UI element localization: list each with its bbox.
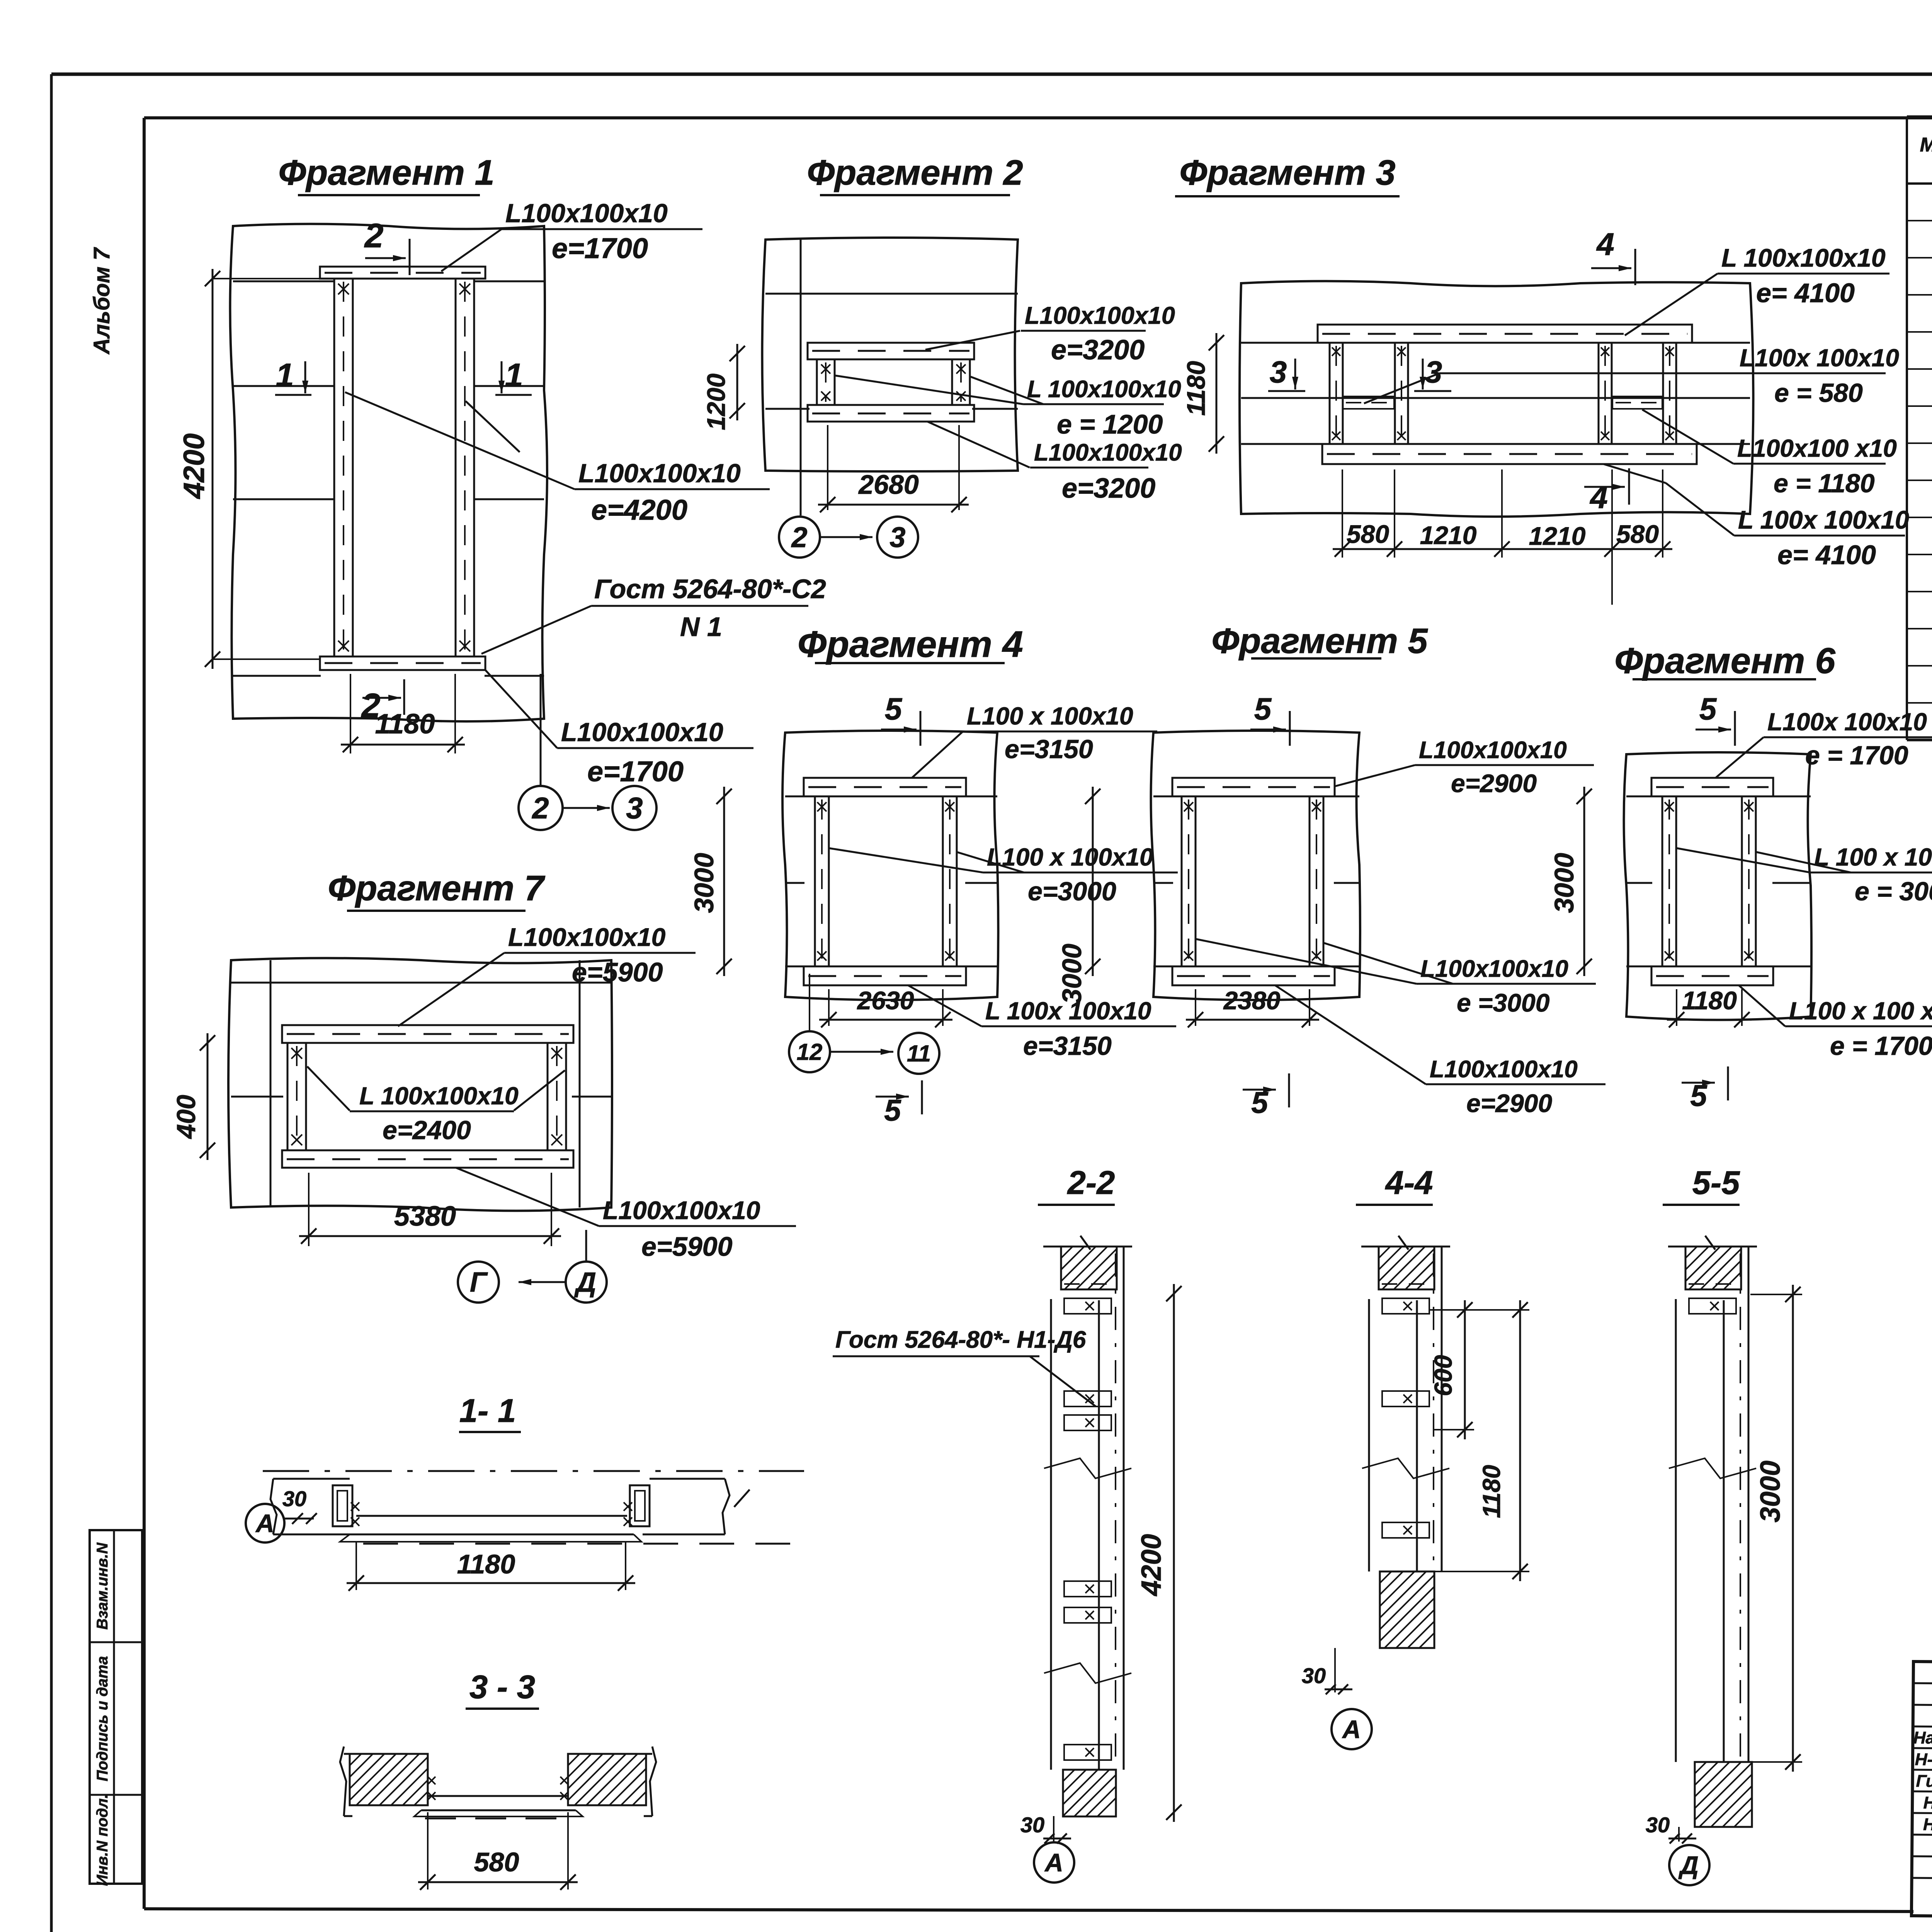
svg-text:L100х100 х10: L100х100 х10 (1737, 434, 1897, 462)
svg-text:e=3150: e=3150 (1023, 1031, 1112, 1061)
svg-text:L100x 100x10: L100x 100x10 (1740, 344, 1899, 372)
svg-text:1210: 1210 (1529, 522, 1586, 550)
svg-text:Фрагмент 2: Фрагмент 2 (807, 153, 1023, 192)
svg-text:2: 2 (361, 686, 381, 724)
svg-text:L 100x100x10: L 100x100x10 (1027, 376, 1181, 403)
svg-text:L100x100x10: L100x100x10 (578, 459, 741, 488)
svg-text:5380: 5380 (394, 1201, 456, 1232)
svg-text:1180: 1180 (457, 1549, 515, 1579)
svg-text:4200: 4200 (1136, 1534, 1167, 1597)
svg-text:1200: 1200 (702, 373, 730, 430)
svg-text:Альбом 7: Альбом 7 (89, 247, 114, 355)
svg-text:e=3200: e=3200 (1062, 473, 1155, 504)
svg-text:Г: Г (470, 1267, 488, 1298)
svg-text:Фрагмент 1: Фрагмент 1 (278, 153, 494, 192)
svg-text:Взам.инв.N: Взам.инв.N (94, 1542, 111, 1629)
svg-text:2680: 2680 (858, 469, 919, 500)
svg-text:e= 4100: e= 4100 (1756, 278, 1855, 308)
svg-text:L 100x100x10: L 100x100x10 (1721, 243, 1886, 272)
svg-text:Фрагмент 5: Фрагмент 5 (1211, 621, 1428, 661)
svg-text:L100x100x10: L100x100x10 (561, 718, 723, 747)
svg-text:А: А (1044, 1848, 1063, 1877)
svg-text:L 100x100x10: L 100x100x10 (359, 1082, 519, 1110)
svg-text:e=2900: e=2900 (1466, 1089, 1552, 1117)
svg-text:e=2400: e=2400 (383, 1116, 471, 1145)
svg-text:Д: Д (1678, 1851, 1699, 1879)
svg-text:2-2: 2-2 (1067, 1165, 1115, 1201)
svg-text:Гип стр.: Гип стр. (1916, 1772, 1932, 1791)
svg-text:e=5900: e=5900 (641, 1231, 733, 1262)
svg-text:e = 1200: e = 1200 (1057, 409, 1163, 439)
svg-text:Инв.N подл.: Инв.N подл. (94, 1794, 111, 1886)
svg-text:4200: 4200 (178, 433, 211, 499)
svg-text:3: 3 (1425, 355, 1442, 389)
svg-text:e = 580: e = 580 (1774, 378, 1863, 408)
svg-text:30: 30 (282, 1486, 306, 1511)
svg-text:L100x100x10: L100x100x10 (1430, 1056, 1578, 1083)
svg-text:30: 30 (1302, 1663, 1326, 1688)
svg-text:e=2900: e=2900 (1451, 769, 1537, 798)
svg-text:L100 x 100x10: L100 x 100x10 (987, 843, 1153, 871)
svg-text:3: 3 (1270, 355, 1287, 389)
svg-text:Д: Д (574, 1267, 596, 1298)
svg-text:e=3150: e=3150 (1005, 735, 1093, 764)
svg-text:L100x100x10: L100x100x10 (1025, 302, 1175, 329)
svg-text:e= 4100: e= 4100 (1777, 540, 1876, 570)
svg-text:Нач.гр.: Нач.гр. (1923, 1793, 1932, 1813)
svg-text:1180: 1180 (1478, 1465, 1505, 1518)
svg-text:2380: 2380 (1223, 986, 1281, 1015)
svg-text:L100x100x10: L100x100x10 (1034, 439, 1182, 466)
svg-text:L100 x 100 x 10: L100 x 100 x 10 (1789, 997, 1932, 1025)
svg-text:3000: 3000 (1057, 944, 1087, 1004)
svg-text:30: 30 (1646, 1813, 1670, 1837)
svg-text:4: 4 (1596, 227, 1614, 262)
svg-text:Фрагмент 7: Фрагмент 7 (328, 869, 545, 908)
svg-text:30: 30 (1020, 1813, 1044, 1837)
svg-text:e=1700: e=1700 (552, 232, 648, 264)
svg-text:1210: 1210 (1420, 521, 1477, 549)
svg-text:Фрагмент 6: Фрагмент 6 (1614, 640, 1835, 681)
svg-text:11: 11 (907, 1041, 931, 1066)
svg-text:Подпись и дата: Подпись и дата (94, 1656, 111, 1781)
svg-text:Марка,: Марка, (1920, 134, 1932, 156)
svg-text:e =3000: e =3000 (1457, 988, 1550, 1017)
svg-text:e=1700: e=1700 (587, 755, 684, 787)
svg-text:5: 5 (1699, 692, 1717, 726)
svg-text:1: 1 (505, 357, 523, 394)
svg-text:L100x 100x10: L100x 100x10 (1767, 708, 1927, 736)
svg-text:L100 x 100x10: L100 x 100x10 (967, 702, 1133, 730)
svg-text:e = 1700: e = 1700 (1805, 741, 1908, 770)
svg-text:Гост 5264-80*-С2: Гост 5264-80*-С2 (594, 574, 826, 604)
svg-text:5: 5 (885, 692, 903, 726)
svg-text:600: 600 (1429, 1355, 1457, 1396)
svg-text:2: 2 (364, 216, 384, 255)
svg-text:e=4200: e=4200 (591, 494, 687, 526)
svg-text:L 100 x 100 x10: L 100 x 100 x10 (1814, 843, 1932, 871)
svg-text:1180: 1180 (1682, 986, 1737, 1015)
svg-text:L100x100x10: L100x100x10 (1419, 737, 1567, 764)
svg-text:Нач.гр.: Нач.гр. (1923, 1815, 1932, 1834)
svg-text:e = 1180: e = 1180 (1774, 469, 1875, 498)
svg-text:1- 1: 1- 1 (459, 1393, 516, 1429)
svg-text:e=3000: e=3000 (1028, 877, 1116, 906)
svg-text:e = 3000: e = 3000 (1855, 877, 1932, 906)
svg-text:e=3200: e=3200 (1051, 335, 1145, 366)
svg-text:2: 2 (791, 521, 807, 553)
svg-text:1: 1 (276, 357, 294, 394)
svg-text:Фрагмент 3: Фрагмент 3 (1179, 153, 1395, 192)
svg-text:3000: 3000 (1549, 853, 1579, 913)
svg-text:e = 1700: e = 1700 (1830, 1031, 1932, 1061)
svg-text:3000: 3000 (1755, 1461, 1786, 1522)
svg-text:4: 4 (1589, 480, 1608, 515)
svg-text:12: 12 (797, 1039, 823, 1065)
svg-text:4-4: 4-4 (1385, 1165, 1433, 1201)
svg-text:L 100x 100x10: L 100x 100x10 (1738, 505, 1909, 534)
svg-text:L100x100x10: L100x100x10 (508, 923, 666, 951)
svg-text:3 - 3: 3 - 3 (469, 1669, 535, 1706)
svg-text:L100x100x10: L100x100x10 (505, 199, 668, 228)
svg-text:5: 5 (1254, 692, 1272, 726)
svg-text:580: 580 (1347, 520, 1389, 548)
svg-text:2630: 2630 (857, 986, 914, 1015)
svg-text:N 1: N 1 (680, 612, 722, 642)
svg-text:3: 3 (889, 521, 905, 553)
svg-text:580: 580 (1616, 520, 1659, 548)
svg-text:А: А (255, 1509, 274, 1537)
svg-text:5-5: 5-5 (1692, 1165, 1741, 1201)
svg-text:Нач. отд.: Нач. отд. (1913, 1728, 1932, 1748)
svg-text:3: 3 (626, 791, 643, 825)
svg-text:А: А (1342, 1715, 1361, 1743)
svg-text:L100x100x10: L100x100x10 (1420, 956, 1568, 982)
svg-text:Н-контр.: Н-контр. (1915, 1750, 1932, 1770)
svg-text:L100x100x10: L100x100x10 (603, 1196, 760, 1225)
svg-text:400: 400 (172, 1095, 201, 1139)
svg-text:2: 2 (531, 791, 549, 825)
svg-text:Гост 5264-80*- Н1-Д6: Гост 5264-80*- Н1-Д6 (835, 1327, 1086, 1353)
svg-text:Фрагмент 4: Фрагмент 4 (798, 624, 1023, 665)
svg-text:3000: 3000 (689, 853, 719, 913)
svg-text:1180: 1180 (1182, 361, 1210, 416)
svg-text:580: 580 (474, 1847, 519, 1877)
